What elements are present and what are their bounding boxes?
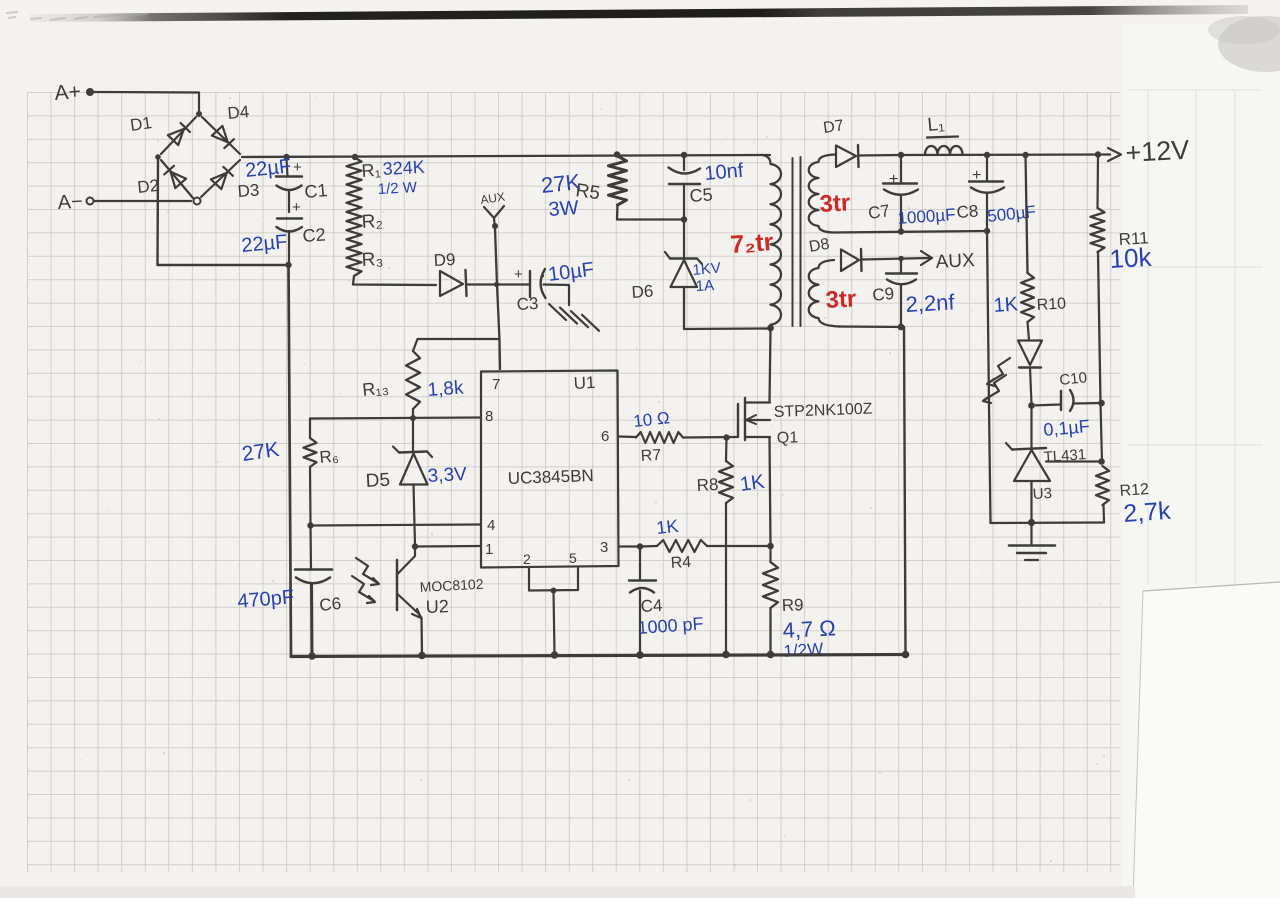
label C4 value 1000pF [637,613,704,638]
node bus junction right [902,651,910,659]
diode D1 [129,113,190,145]
svg-text:3: 3 [600,539,608,556]
wire R3 to D9 [353,276,436,285]
label R2 [361,211,383,233]
label C6 value 470pF [237,586,295,613]
svg-text:+: + [514,266,523,283]
svg-text:MOC8102: MOC8102 [419,576,484,595]
svg-text:R₁: R₁ [361,160,381,181]
wire D9 to junction [467,283,530,285]
diode D5 zener [365,418,432,546]
svg-text:R7: R7 [640,447,661,465]
label R8 value 1K [739,471,767,496]
svg-text:D9: D9 [433,250,456,270]
wire main top rail [242,155,770,157]
wire pin 8 line [310,418,481,419]
diode D8 [808,236,862,271]
label R8 [696,475,719,495]
node junction C10 right [1098,400,1105,407]
label R9 value 4.7ohm [782,615,836,643]
svg-text:AUX: AUX [935,250,975,273]
svg-text:R4: R4 [670,554,691,572]
label C1 value 22uF [244,155,292,182]
label R1 [361,160,381,181]
svg-text:6: 6 [601,428,609,445]
resistor R10 [1021,155,1034,322]
node +12V output [1108,135,1190,168]
node bus junction U2 [418,652,426,660]
node junction C5 bottom [681,216,687,222]
node bridge top [196,111,202,117]
node bus junction C4 [636,651,644,659]
svg-text:7: 7 [492,376,500,393]
svg-text:R8: R8 [696,475,719,495]
transistor U2 MOC8102 [397,547,484,656]
svg-text:U1: U1 [573,373,596,393]
node junction C9 bottom [898,324,905,331]
label C2 value 22uF [241,231,289,257]
label C9 value 2.2nf [905,289,956,317]
label R11 value 10k [1109,242,1153,274]
node junction C10 left [1028,402,1035,409]
capacitor C7 [867,157,918,230]
capacitor C1 [276,159,328,212]
label C5 value 10nf [704,160,745,185]
node junction R10 top [1022,152,1028,158]
svg-text:1: 1 [485,541,493,558]
label AUX top [479,190,505,207]
label R5 power 3W [548,197,580,221]
node junction C4 R4 [637,543,643,549]
wire bottom-left to C2 foot [158,264,289,266]
node bridge left [155,154,161,160]
resistor R7 [636,432,683,443]
svg-text:D8: D8 [808,236,831,256]
svg-text:D3: D3 [237,181,260,201]
svg-text:D1: D1 [129,113,153,135]
resistor R8 [719,438,733,655]
inductor L1 [925,114,963,155]
svg-text:2,2nf: 2,2nf [905,289,956,317]
wire AUX vertical to pin 7 [495,228,500,369]
svg-text:C1: C1 [304,180,329,202]
node junction C2 bottom [285,262,291,268]
node junction gate R8 [723,434,729,440]
svg-text:4: 4 [487,517,495,534]
capacitor C10 [1032,369,1102,411]
svg-text:U3: U3 [1032,485,1052,503]
svg-text:STP2NK100Z: STP2NK100Z [774,401,873,421]
svg-text:A−: A− [57,191,83,214]
node junction R6 C6 [307,522,313,528]
label R4 [670,554,691,572]
wire pin 6 to R7 [619,435,637,438]
node junction R5 top [614,151,620,157]
wire C5 to D6 [683,220,685,258]
label R6 value 27K [240,438,280,466]
svg-text:10nf: 10nf [704,160,745,185]
diode D9 [433,250,466,296]
wire left bus down [289,265,292,656]
svg-text:22µF: 22µF [241,231,289,257]
diode D3 [211,167,260,201]
TL431 shunt regulator U3 [1006,407,1087,522]
svg-text:+12V: +12V [1125,135,1190,168]
svg-text:1/2 W: 1/2 W [377,179,418,198]
transformer secondary bottom winding [809,260,840,327]
label C7 value 1000uF [897,205,956,228]
node junction R13 bottom [410,415,416,421]
resistor R12 [1096,466,1109,522]
svg-text:C8: C8 [956,202,979,222]
svg-text:U2: U2 [425,596,449,617]
svg-text:8: 8 [485,408,493,425]
wire secondary return down [904,327,906,654]
wire right bus C10 to TL431 [1101,403,1103,462]
svg-text:10k: 10k [1109,242,1153,274]
wire bridge left down [156,159,159,265]
label R12 value 2.7k [1122,497,1172,528]
label R1 value 324K [382,157,425,179]
svg-text:C5: C5 [689,184,713,206]
node AUX feed junction [494,282,499,287]
wire bridge edge D4 [202,117,240,154]
svg-text:R12: R12 [1119,481,1150,500]
wire pin 4 line [311,525,482,526]
label R4 value 1K [655,516,679,538]
wire R7 to gate [683,436,737,439]
node junction C1 top [283,154,289,160]
node junction pin1 D5 opto [412,543,418,549]
wire Q1 drain up [770,330,771,403]
label R1 value 1/2W [377,179,418,198]
wire TL431 bottom rail [991,521,1105,524]
wire +12V rail [900,153,1110,156]
label R9 [781,595,803,615]
svg-text:1,8k: 1,8k [427,377,465,400]
node junction C9 top [898,256,904,262]
transistor Q1 STP2NK100Z [738,398,873,447]
label C8 value 500uF [986,202,1036,226]
node A+ terminal [54,80,94,105]
svg-text:C4: C4 [640,596,663,616]
svg-text:R10: R10 [1036,295,1066,314]
svg-text:+: + [889,171,898,188]
svg-text:1KV: 1KV [692,260,722,279]
label secondary turns 3tr top [819,189,851,218]
svg-text:10 Ω: 10 Ω [632,408,670,431]
resistor R4 [640,540,770,552]
LED optocoupler diode [1018,341,1042,368]
capacitor C6 [295,526,342,656]
wire D6 to primary bottom [684,287,769,329]
node junction TL431 bottom [1028,519,1035,526]
wire pin 2 and 5 to bus [529,568,578,654]
label R7 value 10ohm [632,408,670,431]
wire pin 1 line [415,545,481,548]
diode D4 [212,102,250,148]
label R6 [319,446,340,467]
node A- terminal [57,191,93,214]
ground TL431 [1009,523,1055,560]
wire D7 to rail [859,154,901,157]
svg-text:R5: R5 [574,180,601,204]
wire R13 to D5 [412,409,414,417]
label D6 value 1KV [692,260,722,279]
transformer core [793,157,801,326]
svg-text:L₁: L₁ [927,114,946,136]
wire R5 bottom to C5 [617,205,683,220]
node bus junction R8 [722,651,730,659]
label R12 [1119,481,1150,500]
svg-text:C2: C2 [302,224,326,246]
wire pin 3 to C4 node [619,545,641,547]
op-amp U1 UC3845BN box [481,371,619,568]
svg-text:1K: 1K [739,471,767,496]
svg-text:1A: 1A [695,277,714,295]
svg-text:Q1: Q1 [777,429,799,447]
wire bridge edge D2 [161,160,193,198]
svg-text:C10: C10 [1059,369,1088,389]
label R10 value 1K [993,293,1020,317]
svg-text:C7: C7 [867,201,891,223]
node bus junction R9 [767,651,775,659]
svg-text:C3: C3 [516,294,539,314]
svg-text:3,3V: 3,3V [427,464,467,487]
svg-text:R₂: R₂ [361,211,383,233]
svg-text:D5: D5 [365,470,390,492]
svg-text:UC3845BN: UC3845BN [507,466,594,488]
svg-text:1000µF: 1000µF [897,205,956,228]
wire TL431 ref to right bus [1046,460,1101,462]
wire D8 to AUX arrow [862,258,930,260]
node AUX arrow [484,206,504,229]
capacitor C5 [669,157,714,218]
svg-text:7₂tr: 7₂tr [729,228,774,259]
svg-text:R₃: R₃ [361,249,384,271]
resistor R11 [1091,156,1105,403]
label R9 power 1/2W [783,639,824,661]
resistor R13 [406,351,420,409]
svg-text:R9: R9 [781,595,803,615]
node junction C8 top [984,152,990,158]
svg-text:R₁₃: R₁₃ [361,377,389,400]
resistor R1 R2 R3 chain [347,157,362,276]
diode D7 [822,117,858,167]
capacitor C8 [956,157,1004,230]
optocoupler LED arrows [983,358,1010,403]
label R11 [1118,228,1149,249]
resistor R5 [609,156,627,205]
wire secondary bottom rail [833,231,987,233]
node junction Q1 source R9 [767,543,774,550]
label D5 value 3.3V [427,464,467,487]
label C3 value 10uF [547,259,595,286]
resistor R9 [763,546,778,654]
node junction C8 bottom [984,228,990,234]
svg-text:3tr: 3tr [825,285,857,314]
ground C3 [549,304,599,331]
transformer secondary top winding [809,155,835,233]
svg-text:5: 5 [569,550,577,566]
capacitor C2 [277,199,327,264]
svg-text:D4: D4 [227,102,250,123]
svg-text:R₆: R₆ [319,446,340,467]
label R5 value 27K [540,169,582,198]
node bridge bottom [194,198,201,205]
optocoupler U2 arrows [352,558,379,603]
diode D6 zener [631,252,702,302]
svg-text:+: + [293,159,302,176]
svg-text:2: 2 [523,551,531,567]
node junction R1 top [352,154,358,160]
svg-text:A+: A+ [54,80,82,105]
svg-text:+: + [292,199,301,216]
wire A+ to bridge [94,92,199,113]
resistor R6 [304,419,317,525]
label R10 [1036,295,1066,314]
label R13 value 1.8k [427,377,465,400]
wire C8 bottom down to ground line [987,231,991,523]
svg-text:1K: 1K [655,516,679,538]
node junction primary bottom [767,325,774,332]
node AUX output arrow [921,250,976,273]
svg-text:D7: D7 [822,117,845,137]
svg-text:0,1µF: 0,1µF [1043,416,1091,440]
label C10 value 0.1uF [1043,416,1091,440]
label primary turns 72tr [729,228,774,259]
label R13 [361,377,389,400]
label R7 [640,447,661,465]
svg-text:D2: D2 [136,176,160,197]
capacitor C9 [871,261,917,326]
wire R13 top [413,339,498,351]
svg-text:3tr: 3tr [819,189,851,218]
label D6 value 1A [695,277,714,295]
svg-text:D6: D6 [631,282,654,302]
wire bridge edge D1 [161,117,196,154]
svg-text:1K: 1K [993,293,1020,317]
node junction TL431 right [1098,458,1105,465]
transformer primary winding [762,155,781,328]
svg-text:TL431: TL431 [1043,446,1087,466]
wire LED to C10 node [1030,368,1032,405]
svg-text:C9: C9 [871,284,895,305]
svg-text:324K: 324K [382,157,425,179]
wire R10 to LED [1028,322,1030,340]
svg-text:4,7 Ω: 4,7 Ω [782,615,836,643]
label secondary turns 3tr bottom [825,285,857,314]
label R3 [361,249,384,271]
svg-text:2,7k: 2,7k [1122,497,1172,528]
capacitor C3 [514,266,546,314]
node junction C7 top [898,152,904,158]
wire A- to bridge [94,200,191,202]
svg-text:1/2W: 1/2W [783,639,824,661]
wire C3 to ground [544,285,570,306]
svg-text:3W: 3W [548,197,580,221]
node bus junction pins25 [551,651,559,659]
node junction C5 top [681,152,687,158]
diode D2 [136,166,186,197]
label R5 [574,180,601,204]
capacitor C4 [629,548,663,654]
wire Q1 source down [770,437,771,546]
node junction C7 bottom [898,228,904,234]
node junction R11 top [1095,151,1101,157]
node bus junction C6 [308,652,316,660]
wire bottom bus [291,655,906,657]
wire C9 rail to right bus [838,325,904,328]
svg-text:C6: C6 [318,594,342,615]
wire bridge edge D3 [201,160,240,197]
